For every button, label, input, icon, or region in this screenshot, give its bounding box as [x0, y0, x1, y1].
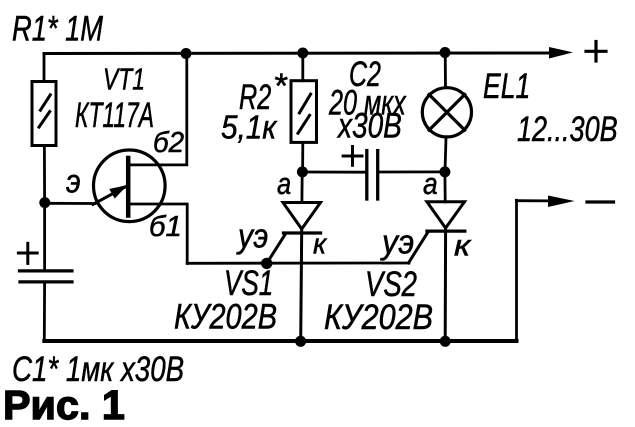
label + polarity C1	[18, 243, 37, 263]
svg-text:EL1: EL1	[483, 66, 530, 105]
thyristor VS1	[267, 203, 321, 342]
resistor R2	[291, 81, 317, 143]
capacitor C1	[20, 271, 73, 282]
wire negative output	[517, 199, 550, 202]
wire R2 top lead	[301, 53, 304, 81]
svg-text:VT1: VT1	[103, 61, 145, 96]
svg-text:R1* 1М: R1* 1М	[12, 9, 104, 48]
svg-text:*: *	[273, 67, 288, 106]
wire C1 bottom lead	[43, 284, 46, 342]
arrow positive output	[549, 47, 573, 59]
node C2/lamp/VS2 junction	[439, 166, 450, 177]
node R2 top at rail	[297, 48, 308, 59]
svg-text:Рис. 1: Рис. 1	[3, 382, 125, 427]
wire top positive rail	[44, 52, 551, 56]
wire lamp top lead	[444, 53, 447, 88]
transistor VT1	[93, 150, 165, 222]
svg-text:уэ: уэ	[236, 217, 268, 255]
label - (negative terminal)	[587, 200, 614, 203]
lamp EL1	[422, 88, 471, 137]
wire R1 top lead	[43, 54, 46, 82]
resistor R1	[32, 82, 56, 146]
svg-text:а: а	[277, 167, 291, 202]
node R2/C2/VS1 junction	[297, 166, 308, 177]
svg-text:э: э	[66, 163, 81, 200]
node base-2 at top rail	[181, 48, 192, 59]
wire R2 bottom lead	[301, 142, 304, 172]
wire VS1 anode lead	[300, 172, 303, 203]
wire base-2 lead	[130, 54, 187, 165]
node emitter junction	[39, 197, 50, 208]
svg-text:а: а	[423, 167, 438, 201]
svg-text:КТ117А: КТ117А	[75, 96, 154, 135]
svg-text:х30В: х30В	[336, 105, 402, 145]
node VS1 cathode at bottom rail	[295, 336, 306, 347]
wire C2 left lead	[302, 171, 365, 174]
node VS2 cathode at bottom rail	[440, 336, 451, 347]
wire bottom rail	[44, 339, 516, 343]
node lamp top at rail	[440, 47, 451, 58]
svg-text:к: к	[313, 228, 328, 261]
wire negative return vertical	[515, 200, 518, 341]
label + polarity C2	[343, 147, 362, 166]
wire emitter to C1	[43, 203, 46, 270]
wire R1 bottom lead	[43, 146, 46, 203]
wire C2 right lead	[379, 170, 445, 173]
svg-text:б1: б1	[149, 211, 182, 243]
svg-text:уэ: уэ	[380, 223, 414, 261]
svg-text:12...30В: 12...30В	[517, 110, 618, 149]
wire emitter lead	[45, 202, 95, 205]
label + (positive terminal)	[586, 42, 606, 62]
svg-text:б2: б2	[153, 126, 184, 159]
svg-text:к: к	[454, 229, 472, 262]
wire VS2 anode lead	[443, 172, 446, 202]
svg-text:5,1к: 5,1к	[221, 109, 277, 146]
wire lamp bottom lead	[445, 137, 446, 172]
arrow negative output	[548, 196, 575, 208]
svg-text:КУ202В: КУ202В	[324, 297, 433, 336]
wire gate bus b1 to VS2	[187, 262, 409, 265]
node gate junction	[261, 258, 272, 269]
wire base-1 lead	[130, 204, 187, 263]
thyristor VS2	[409, 202, 465, 341]
capacitor C2	[367, 151, 378, 199]
svg-text:КУ202В: КУ202В	[174, 297, 277, 336]
